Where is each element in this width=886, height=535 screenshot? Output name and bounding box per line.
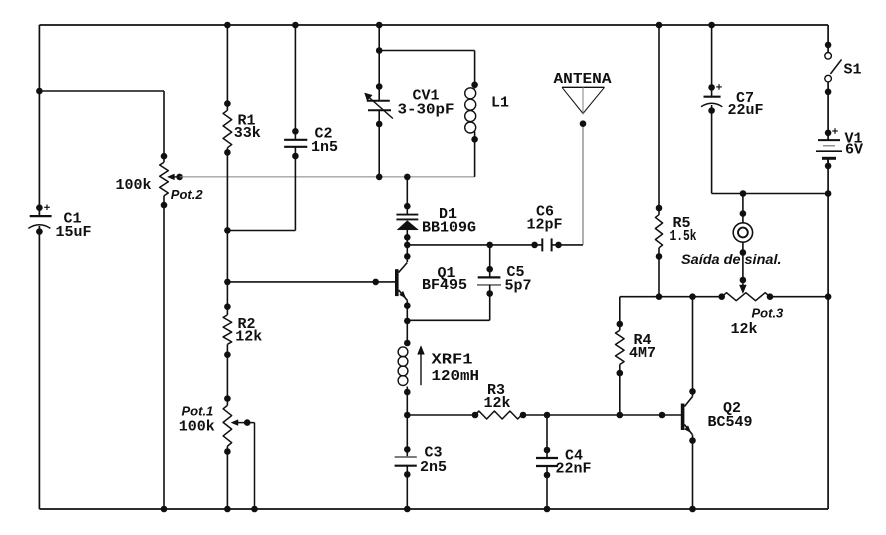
svg-text:Pot.3: Pot.3 [752,306,785,321]
svg-text:2n5: 2n5 [420,459,447,476]
svg-text:6V: 6V [845,141,863,158]
svg-text:L1: L1 [491,94,509,111]
svg-text:100k: 100k [179,419,215,436]
svg-text:Pot.1: Pot.1 [182,404,214,419]
svg-text:Saída de sinal.: Saída de sinal. [681,252,782,267]
svg-text:BB109G: BB109G [422,220,476,237]
svg-text:5p7: 5p7 [505,278,532,295]
svg-text:4M7: 4M7 [629,345,656,362]
svg-text:12k: 12k [484,395,511,412]
svg-text:22nF: 22nF [556,460,592,477]
svg-text:12k: 12k [235,329,262,346]
svg-text:12k: 12k [731,321,758,338]
svg-text:BC549: BC549 [708,414,753,431]
svg-text:12pF: 12pF [527,216,563,233]
svg-text:15uF: 15uF [56,224,92,241]
svg-text:ANTENA: ANTENA [554,71,612,88]
svg-text:Pot.2: Pot.2 [171,187,204,202]
svg-text:3-30pF: 3-30pF [398,101,455,118]
svg-text:22uF: 22uF [728,102,764,119]
svg-text:BF495: BF495 [422,277,467,294]
svg-text:100k: 100k [116,177,152,194]
svg-text:XRF1: XRF1 [432,352,473,369]
svg-text:33k: 33k [234,125,261,142]
svg-text:1n5: 1n5 [311,139,338,156]
svg-text:120mH: 120mH [432,368,480,385]
svg-text:S1: S1 [844,61,862,78]
svg-text:1.5k: 1.5k [670,228,697,245]
